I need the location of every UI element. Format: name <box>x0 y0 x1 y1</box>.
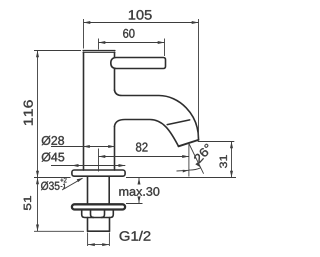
82 arrows <box>99 155 106 158</box>
label 105 <box>129 10 152 20</box>
spout tip face (aerator) <box>179 140 199 146</box>
dim 31 line <box>231 142 233 178</box>
aerator band line <box>167 120 190 125</box>
max30 arrows <box>138 178 141 185</box>
G1/2 arrows <box>88 243 95 246</box>
max30 arrow stems <box>138 178 140 185</box>
body (tap vertical cylinder) <box>83 51 115 171</box>
31 arrows <box>230 142 233 149</box>
label 82 <box>136 143 148 152</box>
backnut washer <box>72 204 125 209</box>
Ø35 leader arrow <box>77 178 83 182</box>
shank tail <box>88 218 110 232</box>
label 116 <box>24 100 33 125</box>
arrowheads <box>36 21 233 246</box>
label 51 <box>24 196 31 210</box>
hex nut <box>82 210 114 218</box>
dim Ø45 <box>51 165 125 167</box>
label O35 <box>41 181 60 190</box>
label G1/2 <box>120 231 151 241</box>
handle lever <box>111 58 166 69</box>
dim Ø28 <box>51 146 115 148</box>
label 31 <box>220 155 227 168</box>
105 arrows <box>84 21 91 24</box>
G1/2 dim <box>88 233 110 247</box>
label O28 <box>42 136 64 145</box>
116 arrows <box>36 51 39 58</box>
outlet angled ray 26deg <box>189 144 204 174</box>
label 26deg <box>193 143 213 163</box>
threaded shank <box>88 176 110 204</box>
max30 washer-top ext <box>126 203 143 205</box>
dim 116 <box>34 51 81 178</box>
dim 82 <box>99 156 190 158</box>
dim 60 <box>99 39 165 57</box>
dim 105 <box>84 19 199 137</box>
label 60 <box>123 29 134 38</box>
Ø45 arrows <box>72 164 79 167</box>
dim 31 top line <box>198 141 235 143</box>
60 arrows <box>99 41 106 44</box>
dim 51 <box>34 178 84 232</box>
deck line left <box>34 177 71 179</box>
label max.30 <box>119 187 159 196</box>
label +2 <box>60 178 66 183</box>
label -1 <box>61 184 66 189</box>
centerline at tap axis <box>98 149 100 172</box>
deck flange <box>72 170 125 176</box>
26deg arc <box>189 168 201 170</box>
spout <box>115 90 199 146</box>
26deg arc left tail <box>177 169 189 172</box>
26deg arc arrows <box>183 170 189 173</box>
label O45 <box>42 152 65 161</box>
leader Ø35 <box>62 178 83 190</box>
outlet axis vertical (26deg ref) <box>188 144 190 177</box>
deck line right <box>126 177 236 179</box>
Ø28 arrows <box>83 145 90 148</box>
51 arrows <box>36 178 39 185</box>
